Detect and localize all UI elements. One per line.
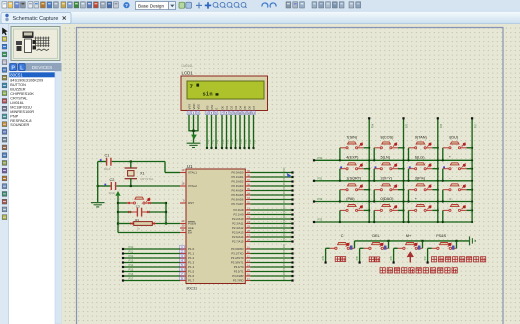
svg-text:DEVICES: DEVICES	[32, 65, 53, 70]
button keypad 2(X^Y)	[373, 176, 404, 202]
svg-text:RS: RS	[205, 105, 209, 109]
svg-text:P22: P22	[284, 213, 286, 218]
svg-text:P06: P06	[250, 139, 252, 144]
svg-text:P1.2: P1.2	[188, 256, 195, 260]
svg-text:RW: RW	[210, 105, 214, 110]
svg-text:E: E	[214, 108, 218, 110]
svg-text:P3.1/TXD: P3.1/TXD	[231, 252, 243, 256]
wire keypad row 1 net P30	[313, 156, 472, 161]
svg-text:P24: P24	[372, 123, 374, 128]
svg-text:P01: P01	[284, 171, 286, 176]
svg-text:29: 29	[181, 219, 185, 223]
svg-text:/(DU): /(DU)	[449, 135, 459, 139]
svg-text:P07: P07	[255, 139, 257, 144]
svg-text:P22: P22	[217, 139, 219, 144]
svg-text:P2.7/A15: P2.7/A15	[232, 240, 244, 244]
svg-text:D1: D1	[225, 105, 229, 109]
svg-text:?: ?	[125, 3, 128, 8]
svg-text:P01: P01	[228, 139, 230, 144]
svg-text:D5: D5	[243, 105, 247, 109]
wire reset rail right	[165, 202, 167, 225]
button keypad (PAI)	[339, 197, 370, 223]
power symbol VCC	[115, 191, 120, 203]
svg-text:P27: P27	[475, 123, 477, 128]
svg-text:P26: P26	[441, 123, 443, 128]
svg-text:VEE: VEE	[196, 104, 200, 110]
button keypad 5(LN)	[373, 156, 404, 182]
svg-text:XTAL2: XTAL2	[188, 184, 197, 188]
svg-text:7(SIN): 7(SIN)	[346, 135, 358, 139]
svg-text:FS&S: FS&S	[436, 234, 446, 238]
svg-text:6(LG): 6(LG)	[415, 156, 425, 160]
resistor R1	[118, 222, 180, 231]
svg-text:CHIPRES10K: CHIPRES10K	[10, 92, 34, 96]
svg-text:P36: P36	[284, 270, 286, 275]
svg-text:P3.6/WR: P3.6/WR	[232, 274, 243, 278]
svg-text:P05: P05	[246, 139, 248, 144]
svg-text:BUTTON: BUTTON	[10, 83, 26, 87]
svg-text:P3.0/RXD: P3.0/RXD	[231, 247, 243, 251]
svg-text:PSEN: PSEN	[188, 222, 196, 226]
svg-text:C: C	[341, 234, 344, 238]
wire XTAL1 net	[98, 160, 180, 172]
svg-text:P14: P14	[129, 263, 134, 267]
svg-text:P15: P15	[129, 268, 134, 272]
svg-text:80C51: 80C51	[10, 72, 23, 77]
svg-text:D3: D3	[234, 105, 238, 109]
power symbol (down arrow) on LCD VDD	[191, 135, 197, 140]
wire row C3	[118, 211, 166, 213]
svg-text:P0.7/AD7: P0.7/AD7	[232, 202, 244, 206]
wire keypad column 3 net P26	[437, 117, 443, 223]
wire function row top net	[355, 240, 470, 242]
LCD pin numbers 1-14	[187, 111, 255, 115]
component preview window	[9, 24, 62, 324]
svg-text:P12: P12	[129, 254, 134, 258]
annotation QieHuan switch input mode (8 chars)	[432, 257, 486, 262]
svg-text:P20: P20	[208, 139, 210, 144]
svg-text:P23: P23	[284, 218, 286, 223]
ground (crystal)	[91, 203, 105, 207]
svg-text:ALE: ALE	[188, 226, 194, 230]
svg-text:P0.3/AD3: P0.3/AD3	[232, 184, 244, 188]
button FS&amp;S	[425, 234, 457, 264]
svg-text:P2.6/A14: P2.6/A14	[232, 235, 244, 239]
svg-text:P1.6: P1.6	[188, 274, 195, 278]
svg-text:P06: P06	[284, 194, 286, 199]
unconnected pin markers (red x)	[128, 202, 155, 225]
svg-text:P30: P30	[318, 156, 323, 160]
wire keypad column 4 net P27	[471, 117, 477, 223]
sheet border	[77, 28, 504, 324]
svg-text:P27: P27	[284, 236, 286, 241]
svg-text:P26: P26	[284, 231, 286, 236]
svg-text:P2.0/A8: P2.0/A8	[234, 208, 244, 212]
svg-text:P2.2/A10: P2.2/A10	[232, 217, 244, 221]
svg-text:BUZZER: BUZZER	[10, 88, 25, 92]
svg-text:P1.7: P1.7	[188, 279, 195, 283]
wire EA net	[118, 232, 180, 234]
svg-text:P02: P02	[232, 139, 234, 144]
annotation BaoCun save and use last result (11 chars)	[380, 268, 457, 273]
wires LCD data D0-D7	[221, 115, 257, 149]
svg-text:X1: X1	[140, 172, 145, 176]
svg-text:P37: P37	[284, 275, 286, 280]
svg-text:P33: P33	[318, 218, 323, 222]
wires LCD RS/RW/E	[206, 115, 219, 149]
svg-text:P0.2/AD2: P0.2/AD2	[232, 180, 244, 184]
button keypad 0(DAO)	[373, 197, 404, 223]
svg-text:P04: P04	[241, 139, 243, 144]
svg-text:P3.4/T0: P3.4/T0	[234, 265, 244, 269]
svg-text:P0.6/AD6: P0.6/AD6	[232, 198, 244, 202]
svg-text:P3.7/RD: P3.7/RD	[233, 279, 244, 283]
svg-text:P2.3/A11: P2.3/A11	[232, 222, 244, 226]
svg-text:P1.3: P1.3	[188, 261, 195, 265]
svg-text:XTAL1: XTAL1	[188, 171, 197, 175]
svg-text:P33: P33	[284, 257, 286, 262]
svg-text:P30: P30	[284, 243, 286, 248]
svg-text:18: 18	[181, 182, 185, 186]
svg-text:Schematic Capture: Schematic Capture	[13, 16, 59, 22]
svg-text:P32: P32	[318, 197, 323, 201]
button keypad *	[442, 156, 473, 182]
wire keypad row 2 net P31	[313, 177, 472, 182]
svg-text:P05: P05	[284, 189, 286, 194]
svg-text:sin: sin	[203, 91, 213, 97]
wires P1.0-P1.7	[122, 245, 180, 282]
crystal X1	[125, 162, 154, 187]
ground below LCD	[187, 143, 201, 147]
svg-text:P3.2/INT0: P3.2/INT0	[231, 256, 244, 260]
svg-text:P31: P31	[284, 248, 286, 253]
wire to ground left	[97, 162, 99, 203]
svg-text:P02: P02	[284, 176, 286, 181]
annotation GuiLing (reset to zero)	[335, 257, 346, 262]
button C	[323, 234, 355, 264]
svg-text:P3.5/T1: P3.5/T1	[234, 270, 244, 274]
svg-text:P1.1: P1.1	[188, 252, 195, 256]
svg-text:P2.1/A9: P2.1/A9	[234, 213, 244, 217]
net marker arrow on P0.0	[287, 173, 291, 178]
svg-text:1(SQRT): 1(SQRT)	[346, 176, 362, 180]
svg-text:P35: P35	[357, 255, 359, 260]
wire keypad column 1 net P24	[368, 117, 374, 223]
svg-text:P1.0: P1.0	[188, 247, 195, 251]
svg-text:D0: D0	[220, 105, 224, 109]
button keypad 6(LG)	[407, 156, 438, 182]
svg-text:3(F%): 3(F%)	[415, 176, 426, 180]
svg-text:30pF: 30pF	[109, 191, 116, 195]
svg-text:P34: P34	[284, 261, 286, 266]
svg-text:P11: P11	[129, 250, 134, 254]
svg-text:30: 30	[181, 224, 185, 228]
button keypad 7(SIN)	[339, 135, 370, 161]
LCD display LCD1 body	[181, 76, 268, 111]
U1 left pins	[180, 168, 198, 283]
svg-text:P: P	[11, 66, 15, 72]
svg-text:P36: P36	[391, 255, 393, 260]
button keypad =	[442, 197, 473, 223]
svg-text:31: 31	[181, 228, 185, 232]
svg-text:EA: EA	[188, 231, 192, 235]
svg-text:P1.4: P1.4	[188, 265, 195, 269]
button keypad +	[407, 197, 438, 223]
LCD pin names	[187, 104, 256, 110]
svg-text:P2.4/A12: P2.4/A12	[232, 226, 244, 230]
svg-text:9(TAN): 9(TAN)	[415, 135, 428, 139]
button keypad 9(TAN)	[407, 135, 438, 161]
svg-text:4(EXP): 4(EXP)	[346, 156, 359, 160]
annotation arrow M+	[407, 251, 414, 262]
button reset	[118, 197, 166, 204]
button keypad 8(COS)	[373, 135, 404, 161]
U1 right pins and wires	[231, 167, 294, 283]
devices header	[9, 63, 62, 71]
svg-text:P2.5/A13: P2.5/A13	[232, 231, 244, 235]
svg-text:SOUNDER: SOUNDER	[10, 123, 29, 127]
svg-text:C2: C2	[110, 178, 115, 182]
svg-text:U1: U1	[187, 164, 193, 169]
svg-text:5(LN): 5(LN)	[381, 156, 391, 160]
button DEL	[357, 234, 389, 264]
wire keypad row 3 net P32	[313, 197, 472, 202]
svg-text:D4: D4	[238, 105, 242, 109]
svg-text:CRYSTAL: CRYSTAL	[10, 97, 27, 101]
annotation ShanChu (delete)	[369, 257, 380, 262]
svg-text:P03: P03	[237, 139, 239, 144]
svg-text:VDD: VDD	[192, 104, 196, 110]
svg-text:C1: C1	[105, 154, 110, 158]
capacitor C2	[104, 178, 115, 195]
svg-text:P35: P35	[284, 266, 286, 271]
svg-text:P00: P00	[223, 139, 225, 144]
svg-text:P21: P21	[284, 209, 286, 214]
button M+	[391, 234, 423, 264]
microcontroller U1 80C31	[186, 169, 245, 284]
svg-text:P0.1/AD1: P0.1/AD1	[232, 175, 244, 179]
svg-text:MC18F031U: MC18F031U	[10, 105, 32, 109]
ground (function row, rotated)	[470, 236, 476, 245]
svg-text:8(COS): 8(COS)	[381, 135, 395, 139]
svg-text:P31: P31	[318, 177, 323, 181]
LCD screen text	[190, 83, 219, 97]
svg-text:RESPACK-8: RESPACK-8	[10, 119, 31, 123]
wire keypad column 2 net P25	[402, 117, 408, 223]
wire reset rail left	[117, 202, 119, 233]
svg-text:P03: P03	[284, 180, 286, 185]
svg-text:M+: M+	[406, 234, 412, 238]
svg-text:D6: D6	[247, 105, 251, 109]
button keypad -	[442, 176, 473, 202]
svg-text:LM016L: LM016L	[10, 101, 24, 105]
button keypad 3(F%)	[407, 176, 438, 202]
wire XTAL2 net	[97, 185, 180, 187]
svg-text:P32: P32	[284, 252, 286, 257]
svg-text:P04: P04	[284, 185, 286, 190]
svg-text:P3.3/INT1: P3.3/INT1	[231, 261, 244, 265]
device list	[9, 71, 55, 324]
svg-text:P37: P37	[425, 255, 427, 260]
svg-text:84S190E3106K209: 84S190E3106K209	[10, 79, 43, 83]
svg-text:LM016L: LM016L	[182, 64, 194, 68]
left mode toolbar	[0, 24, 9, 324]
svg-text:D2: D2	[229, 105, 233, 109]
svg-text:P0.0/AD0: P0.0/AD0	[232, 171, 244, 175]
svg-text:P34: P34	[323, 255, 325, 260]
svg-text:P21: P21	[213, 139, 215, 144]
svg-text:P16: P16	[129, 272, 134, 276]
button keypad /(DU)	[442, 135, 473, 161]
svg-text:Base Design: Base Design	[138, 3, 164, 8]
svg-text:P0.4/AD4: P0.4/AD4	[232, 189, 244, 193]
svg-text:DEL: DEL	[372, 234, 379, 238]
svg-text:VSS: VSS	[187, 104, 191, 110]
svg-text:P1.5: P1.5	[188, 270, 195, 274]
svg-text:P17: P17	[129, 277, 134, 281]
svg-text:P10: P10	[129, 245, 134, 249]
svg-text:0(DAO): 0(DAO)	[381, 197, 395, 201]
svg-text:P25: P25	[284, 227, 286, 232]
svg-text:RST: RST	[188, 201, 194, 205]
svg-text:P0.5/AD5: P0.5/AD5	[232, 193, 244, 197]
svg-text:P07: P07	[284, 198, 286, 203]
svg-text:×: ×	[62, 14, 67, 23]
svg-text:P13: P13	[129, 259, 134, 263]
svg-text:P00: P00	[284, 167, 286, 172]
svg-text:P20: P20	[284, 204, 286, 209]
button keypad 1(SQRT)	[339, 176, 370, 202]
svg-text:2(X^Y): 2(X^Y)	[381, 176, 393, 180]
svg-text:PNP: PNP	[10, 114, 18, 118]
svg-text:30pF: 30pF	[104, 167, 111, 171]
capacitor C1	[100, 154, 111, 172]
wire LCD VSS to ground	[188, 115, 198, 143]
svg-text:P24: P24	[284, 222, 286, 227]
wire keypad row 4 net P33	[313, 218, 472, 223]
svg-text:MINRES100R: MINRES100R	[10, 110, 34, 114]
svg-text:P25: P25	[407, 123, 409, 128]
svg-text:19: 19	[181, 168, 185, 172]
svg-text:CRYSTAL: CRYSTAL	[140, 177, 154, 181]
svg-text:(PAI): (PAI)	[346, 197, 355, 201]
svg-text:LCD1: LCD1	[182, 71, 194, 76]
capacitor C3	[135, 204, 141, 221]
top toolbar	[0, 0, 520, 12]
button keypad 4(EXP)	[339, 156, 370, 182]
svg-text:7: 7	[190, 83, 194, 90]
svg-text:80C31: 80C31	[187, 287, 198, 291]
svg-text:D7: D7	[252, 105, 256, 109]
